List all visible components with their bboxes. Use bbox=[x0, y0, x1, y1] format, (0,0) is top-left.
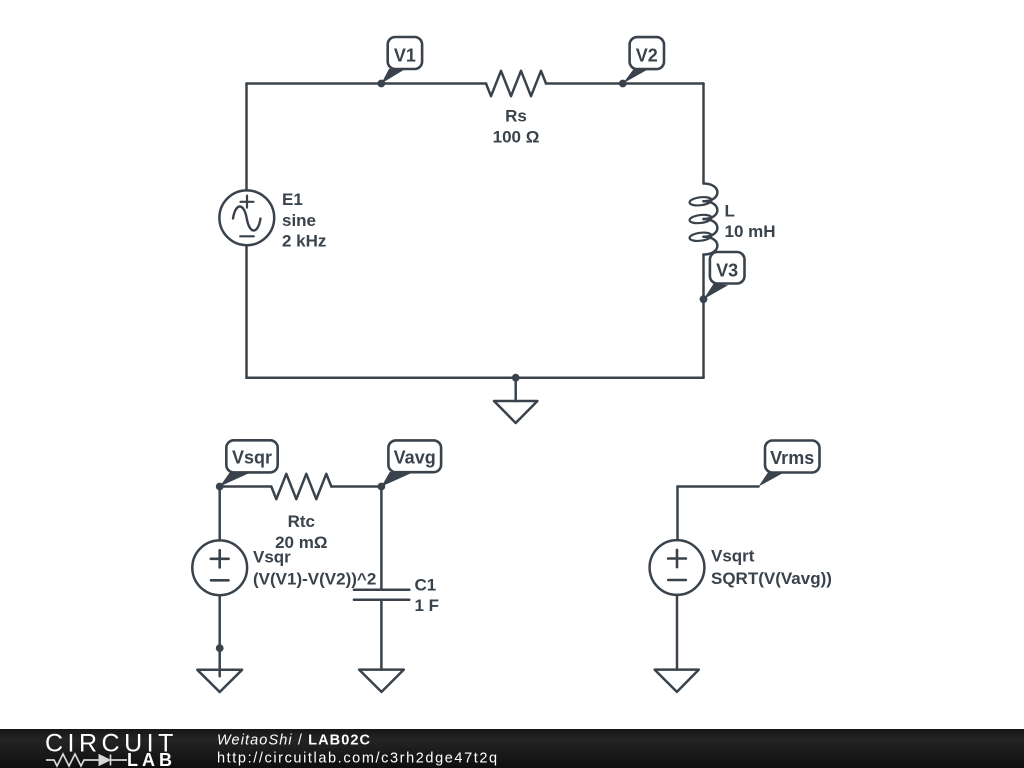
ground C1 triangle bbox=[359, 670, 404, 692]
wire top rail left segment bbox=[247, 82, 487, 85]
flag Vrms box bbox=[765, 441, 820, 473]
capacitor C1 top plate bbox=[354, 589, 409, 592]
Vsqr minus sign bbox=[211, 579, 229, 582]
voltage source Vsqr circle bbox=[192, 540, 247, 595]
inductor L coil bump 4 bbox=[704, 237, 718, 255]
wire Vrms corner down to source bbox=[676, 487, 679, 541]
svg-text:V1: V1 bbox=[394, 46, 416, 66]
inductor L coil bump 2 bbox=[704, 201, 718, 219]
ground Vsqrt triangle bbox=[655, 670, 699, 692]
svg-text:LAB: LAB bbox=[127, 750, 176, 768]
Vsqrt minus sign bbox=[668, 579, 686, 582]
wire capacitor to ground bbox=[380, 600, 383, 670]
wire bottom-left rail left segment bbox=[220, 485, 272, 488]
node ground junction dot top circuit bbox=[512, 374, 520, 382]
inductor L coil bump 3 bbox=[704, 219, 718, 237]
flag V3 box bbox=[710, 252, 745, 284]
svg-text:10 mH: 10 mH bbox=[725, 222, 776, 241]
svg-text:SQRT(V(Vavg)): SQRT(V(Vavg)) bbox=[711, 569, 832, 588]
ground top circuit stem bbox=[514, 378, 517, 401]
svg-text:Vsqr: Vsqr bbox=[232, 448, 272, 468]
resistor Rtc bbox=[271, 474, 331, 499]
wire bottom rail bbox=[247, 376, 704, 379]
flag Vsqr pointer bbox=[220, 472, 250, 486]
svg-text:1 F: 1 F bbox=[415, 596, 440, 615]
inductor L left loop 3 bbox=[689, 231, 712, 242]
svg-text:Vsqr: Vsqr bbox=[253, 548, 291, 567]
svg-text:(V(V1)-V(V2))^2: (V(V1)-V(V2))^2 bbox=[253, 570, 376, 589]
svg-text:V2: V2 bbox=[636, 46, 658, 66]
svg-text:V3: V3 bbox=[716, 260, 738, 280]
inductor L left loop 2 bbox=[689, 214, 712, 225]
wire Vsqr node down to source bbox=[218, 487, 221, 541]
node Vavg dot bbox=[378, 483, 386, 491]
flag V2 pointer bbox=[623, 69, 649, 83]
flag V2 box bbox=[630, 37, 664, 69]
Vsqrt plus sign bbox=[668, 550, 686, 567]
svg-text:C1: C1 bbox=[415, 575, 437, 594]
E1 sine wave bbox=[233, 207, 261, 231]
flag V1 pointer bbox=[381, 69, 405, 84]
flag V3 pointer bbox=[704, 283, 729, 299]
wire bottom-left rail right segment bbox=[331, 485, 381, 488]
voltage source E1 circle bbox=[219, 190, 274, 245]
svg-text:Vavg: Vavg bbox=[394, 448, 436, 468]
svg-text:L: L bbox=[725, 202, 735, 221]
wire E1 bottom to rail bbox=[245, 245, 248, 377]
node Vsqr ground dot bbox=[216, 644, 224, 652]
svg-text:Vsqrt: Vsqrt bbox=[711, 547, 755, 566]
svg-text:http://circuitlab.com/c3rh2dge: http://circuitlab.com/c3rh2dge47t2q bbox=[217, 750, 499, 766]
wire inductor to bottom rail bbox=[702, 255, 705, 378]
capacitor C1 bottom plate bbox=[354, 598, 409, 601]
E1 minus sign bbox=[240, 235, 254, 237]
Vsqr plus sign bbox=[211, 550, 229, 567]
wire Vrms horizontal bbox=[678, 485, 759, 488]
svg-text:2 kHz: 2 kHz bbox=[282, 232, 326, 251]
inductor L coil bump 1 bbox=[704, 184, 718, 202]
svg-text:sine: sine bbox=[282, 211, 316, 230]
flag Vsqr box bbox=[226, 440, 277, 472]
resistor Rs bbox=[486, 71, 546, 96]
E1 plus sign bbox=[241, 196, 254, 208]
node V3 dot bbox=[700, 295, 708, 303]
wire right vertical to inductor bbox=[702, 84, 705, 184]
wire Vsqrt source to ground bbox=[676, 595, 679, 670]
svg-text:WeitaoShi / LAB02C: WeitaoShi / LAB02C bbox=[217, 732, 371, 748]
ground Vsqr stem bbox=[218, 648, 221, 676]
inductor L left loop 1 bbox=[689, 196, 712, 207]
wire Vsqr source to ground dot bbox=[218, 595, 221, 648]
footer bar bbox=[0, 729, 1024, 768]
svg-text:Rs: Rs bbox=[505, 107, 527, 126]
node V1 dot bbox=[377, 80, 385, 88]
wire top rail right segment bbox=[546, 82, 704, 85]
flag Vavg box bbox=[388, 440, 441, 472]
node V2 dot bbox=[619, 80, 627, 88]
wire left vertical to E1 bbox=[245, 84, 248, 191]
logo resistor-diode symbol bbox=[46, 754, 127, 766]
svg-text:Vrms: Vrms bbox=[770, 448, 814, 468]
flag Vrms pointer bbox=[759, 472, 784, 486]
voltage source Vsqrt circle bbox=[650, 540, 705, 595]
svg-text:E1: E1 bbox=[282, 190, 303, 209]
ground Vsqr triangle bbox=[197, 670, 242, 692]
node Vsqr dot bbox=[216, 483, 224, 491]
wire Vavg node down to capacitor bbox=[380, 487, 383, 590]
svg-text:Rtc: Rtc bbox=[288, 512, 315, 531]
ground top circuit triangle bbox=[494, 401, 537, 423]
flag Vavg pointer bbox=[381, 472, 411, 487]
svg-text:100 Ω: 100 Ω bbox=[493, 127, 540, 146]
flag V1 box bbox=[388, 37, 422, 69]
